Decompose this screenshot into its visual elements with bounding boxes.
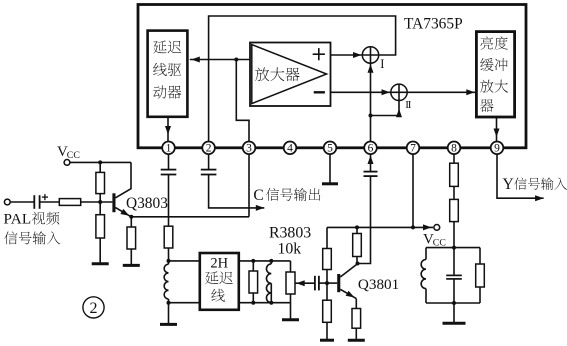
transistor Q3801 — [327, 264, 358, 299]
figure number 2 — [83, 297, 104, 318]
node Q3801 collector — [356, 262, 360, 266]
Vcc terminal (right) — [434, 225, 440, 231]
wire delay-driver to pin 1 with down arrow — [165, 117, 171, 142]
node tank top — [452, 246, 456, 250]
wire 2H top rail — [239, 260, 291, 262]
wire pin 5 down — [329, 154, 331, 184]
svg-text:C: C — [253, 187, 263, 204]
resistor pin8 upper — [450, 163, 459, 199]
svg-text:Q3801: Q3801 — [358, 276, 399, 293]
wire junction down to pin 3 — [236, 60, 249, 142]
wire tank bottom rail — [426, 302, 480, 304]
node collector resistor/rail — [355, 225, 359, 229]
wire input to coupling cap — [10, 201, 34, 203]
svg-text:PAL: PAL — [4, 211, 32, 228]
node delay-line bottom — [167, 301, 171, 305]
resistor Vcc to base — [96, 162, 105, 202]
op-amp U1 TA7365P IC outline — [138, 5, 526, 148]
node pin7/rail — [411, 225, 415, 229]
label 信号输入 (left) — [4, 231, 60, 244]
label TA7365P — [404, 16, 463, 33]
resistor base upper (Q3801) — [323, 227, 332, 283]
node delay-line top — [167, 259, 171, 263]
inductor left of 2H delay line — [164, 261, 168, 303]
summing node II — [391, 84, 407, 100]
label Y信号输入 — [503, 176, 567, 193]
inductor tank — [421, 248, 426, 303]
capacitor input coupling with + — [34, 194, 48, 209]
label Vcc (right) — [423, 231, 446, 248]
label PAL视频 — [4, 211, 60, 228]
wire tank top rail — [426, 247, 480, 249]
wire brightness buffer to pin 9 with down arrow — [494, 117, 500, 142]
resistor pin8 lower — [450, 199, 459, 247]
svg-text:TA7365P: TA7365P — [404, 16, 463, 33]
svg-text:9: 9 — [494, 143, 500, 155]
svg-text:4: 4 — [287, 143, 293, 155]
capacitor base coupling Q3801 — [315, 276, 327, 291]
capacitor pin 6 — [364, 172, 378, 177]
wire pin 7 down — [412, 154, 414, 227]
wire pin 3 down — [248, 154, 250, 217]
ground 2H input side — [160, 303, 177, 325]
Vcc terminal (left) — [64, 160, 70, 166]
node junction on amp input — [234, 58, 238, 62]
node Q3801 base — [325, 281, 329, 285]
wire pin 6 to Q3801 collector — [358, 176, 371, 263]
svg-text:5: 5 — [327, 143, 333, 155]
potentiometer R3803 — [286, 261, 295, 303]
wire Q3803 emitter to pin 3 line — [131, 216, 249, 218]
node Vcc/R junction — [98, 160, 102, 164]
wire amp input / to delay driver (left arrow) — [190, 57, 250, 63]
wire amp + output to adder I — [331, 52, 362, 58]
resistor emitter (Q3801) — [352, 299, 361, 341]
pin 4 — [284, 142, 297, 155]
label II — [405, 99, 411, 111]
ground pin 5 — [322, 182, 338, 185]
amplifier block (op-amp) — [250, 43, 331, 107]
ground emitter Q3801 — [348, 339, 365, 342]
ground base divider — [92, 262, 109, 265]
svg-text:II: II — [405, 99, 411, 111]
pin 3 — [243, 142, 256, 155]
resistor tank — [476, 248, 485, 303]
svg-text:2H: 2H — [210, 256, 228, 272]
pin 2 — [202, 142, 215, 155]
label I — [380, 57, 384, 71]
wire pin 8 down — [453, 154, 455, 163]
capacitor pin 2 (C output) — [201, 170, 217, 175]
svg-text:7: 7 — [410, 143, 416, 155]
wire pin 6 up to adder I with up arrow — [368, 63, 374, 141]
pin 1 — [162, 142, 175, 155]
resistor damping — [249, 261, 258, 303]
wire feedback: adder I to pin 2 via top — [209, 16, 396, 142]
label 10k — [278, 241, 302, 258]
svg-text:2: 2 — [90, 300, 98, 317]
wire pin 9 to Y input with right arrow — [497, 154, 544, 201]
resistor base lower (Q3803) — [96, 202, 105, 264]
pin 5 — [324, 142, 337, 155]
label Vcc (left) — [57, 144, 80, 161]
resistor pin1 chain — [164, 226, 173, 261]
svg-text:CC: CC — [67, 150, 80, 161]
wire to 2H box top — [169, 260, 200, 262]
brightness buffer amplifier block — [476, 32, 514, 117]
pin 7 — [407, 142, 420, 155]
2H delay line block — [200, 253, 239, 310]
svg-text:Q3803: Q3803 — [126, 195, 168, 212]
resistor collector (Q3801) — [353, 227, 362, 263]
pin 6 — [364, 142, 377, 155]
pin 9 — [491, 142, 504, 155]
node top rail a — [251, 259, 255, 263]
node Q3803 emitter — [129, 215, 133, 219]
pin 8 — [448, 142, 461, 155]
label C信号输出 — [253, 187, 320, 204]
label R3803 — [269, 224, 311, 241]
wire adder II output to brightness buffer — [408, 89, 477, 95]
node Q3803 base — [98, 200, 102, 204]
wire to 2H box bottom — [169, 302, 200, 304]
wire 2H bottom rail — [239, 302, 291, 304]
node bottom rail b — [269, 301, 273, 305]
wire amp - output to adder II — [331, 89, 391, 95]
delay line driver block — [148, 31, 188, 117]
wire cap to resistor — [40, 201, 60, 203]
input terminal PAL — [4, 199, 10, 205]
wire junction to adder II bottom with up arrow — [371, 101, 403, 117]
svg-text:10k: 10k — [278, 241, 302, 258]
wire pin 1 down — [168, 154, 170, 170]
node bottom rail a — [251, 301, 255, 305]
svg-text:6: 6 — [368, 143, 374, 155]
capacitor pin 1 — [161, 170, 177, 175]
ground emitter Q3803 — [123, 264, 140, 267]
node junction below adder I — [369, 114, 373, 118]
wire Vcc rail to Q3803 collector — [70, 161, 131, 163]
summing node I — [362, 47, 378, 63]
svg-text:R3803: R3803 — [269, 224, 311, 241]
wire pin 2 down — [208, 154, 210, 170]
wire pin 6 down with up arrow — [368, 154, 374, 172]
svg-text:1: 1 — [166, 143, 172, 155]
svg-text:I: I — [380, 57, 384, 71]
resistor input series — [59, 199, 80, 206]
svg-text:Y: Y — [503, 176, 514, 193]
label Q3801 — [358, 276, 399, 293]
node tank bottom — [452, 301, 456, 305]
svg-text:3: 3 — [246, 143, 252, 155]
ground base divider Q3801 — [320, 339, 334, 342]
ground 2H output side — [282, 303, 299, 320]
capacitor tank — [446, 248, 462, 303]
svg-text:8: 8 — [451, 143, 457, 155]
node top rail b — [269, 259, 273, 263]
wire C signal output with right arrow — [209, 175, 265, 211]
inductor peaking — [266, 261, 271, 303]
wire cap to resistor — [168, 175, 170, 227]
wire Vcc rail (right) with arrow to terminal — [327, 224, 433, 230]
ground tank — [443, 303, 466, 323]
svg-text:2: 2 — [206, 143, 212, 155]
wire wiper arm with left arrow — [295, 280, 315, 286]
label Q3803 — [126, 195, 168, 212]
wire resistor to Q3803 base — [81, 201, 113, 203]
resistor emitter (Q3803) — [127, 217, 136, 266]
resistor base lower (Q3801) — [323, 283, 332, 340]
transistor Q3803 — [112, 162, 131, 216]
